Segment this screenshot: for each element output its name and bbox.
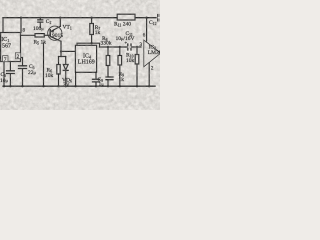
capacitor C6 bottom lead [9, 74, 11, 86]
wire VD6 bottom lead [65, 71, 67, 86]
wire W2 signal row [100, 46, 142, 48]
op-amp U3 LM386 triangle [144, 40, 161, 67]
capacitor C5 bottom lead [22, 69, 24, 86]
wire R8 to C10 [107, 66, 109, 77]
wire left rail stub down to IC1 [2, 18, 4, 33]
node R7 bottom junction [90, 42, 92, 44]
wire VT1 emitter to rail [59, 18, 61, 27]
node R6 ground [57, 85, 59, 87]
wire branch tee to R6 and VD6 [59, 56, 66, 58]
wire op-amp pin2 to ground [148, 63, 150, 86]
wire R9 bottom lead [119, 65, 121, 86]
wire IC4 bottom-left pin to ground [75, 72, 77, 86]
node VT1 collector junction [60, 50, 62, 52]
transistor VT1 9015 circle [48, 26, 62, 40]
node R9 ground [119, 85, 121, 87]
capacitor C12 at rail right end [158, 15, 161, 21]
transistor VT1 collector diagonal [50, 36, 61, 41]
wire C2 ground drop [43, 43, 45, 86]
wire C11 gap mask [128, 46, 130, 48]
wire R5 to VT1 base [44, 34, 50, 36]
wire IC4 top pin to W1 [77, 43, 100, 47]
capacitor C5 22u plates [19, 66, 27, 69]
label pin 7 notch [3, 56, 8, 62]
wire pin 8 of U1 to rail [20, 18, 22, 33]
wire top power rail [3, 17, 156, 19]
capacitor C2 top lead [39, 18, 41, 20]
node R8 top [107, 46, 109, 48]
wire R9 top lead [119, 47, 121, 56]
transistor VT1 emitter diagonal with arrow [51, 26, 61, 31]
node IC4 pin ground [74, 85, 76, 87]
node C2 rail junction [39, 17, 41, 19]
wire R8C column top lead [107, 47, 109, 56]
capacitor C6 10u plates [7, 71, 15, 74]
node R9 top [119, 46, 121, 48]
node C5 ground [21, 85, 23, 87]
IC U1 left box (567 tone decoder) [1, 33, 21, 62]
resistor R9 1k [118, 56, 122, 66]
wire U1 C6 pin lead [9, 62, 11, 71]
wire bottom ground rail [3, 85, 155, 87]
wire U1 pin2 to C5 [21, 58, 23, 66]
wire VD6 top lead [65, 57, 67, 65]
resistor R5 1k [35, 34, 44, 37]
resistor R10 10k [135, 55, 139, 65]
wire R7 top lead [91, 18, 93, 24]
capacitor C2 plates [38, 20, 43, 22]
node C2 ground junction [42, 85, 44, 87]
capacitor C11 plus sign [125, 42, 127, 44]
capacitor C11 10u/16V plates [128, 44, 131, 50]
capacitor C10 bottom lead [107, 80, 109, 86]
wire R10 bottom lead [136, 64, 138, 86]
node R10 ground [136, 85, 138, 87]
wire op-amp pin6 from rail [146, 18, 148, 41]
node C6 ground [9, 85, 11, 87]
wire R10 top lead [136, 47, 138, 55]
resistor R8 330k [106, 56, 110, 66]
capacitor C10 plates [106, 77, 113, 80]
resistor R6 10k [57, 65, 60, 75]
diode VD6 zener 3V [63, 65, 68, 71]
capacitor C2 bottom stub [39, 23, 41, 28]
capacitor C9 bottom lead [95, 82, 97, 86]
node VT1 rail junction [59, 17, 61, 19]
node R10 top [136, 46, 138, 48]
wire U1 pin7 to ground [3, 62, 5, 87]
wire VT1 collector down [60, 41, 62, 51]
node R7 rail junction [90, 17, 92, 19]
node VD6 ground [65, 85, 67, 87]
node pin7 ground [3, 85, 5, 87]
node pin2 ground [148, 85, 150, 87]
wire R7 bottom lead [91, 35, 93, 44]
wire R6 top lead [58, 57, 60, 65]
resistor R11 240 on rail [117, 14, 135, 20]
wire R6 bottom lead [58, 74, 60, 86]
IC U2 middle box LH169 [75, 45, 96, 72]
node pin6 rail junction [145, 17, 147, 19]
wire collector node to IC4 [61, 50, 75, 52]
wire collector node down branch [60, 51, 62, 56]
transistor VT1 base bar [49, 30, 51, 37]
capacitor C9 1u plates [93, 79, 100, 82]
label pin 2 notch [15, 53, 20, 59]
wire U1 pin to R5 [21, 34, 36, 36]
node C10 ground [107, 85, 109, 87]
resistor R7 1k [90, 24, 94, 35]
node pin8 rail junction [20, 17, 22, 19]
wire IC4 bottom-right pin [95, 72, 97, 79]
node C9 ground [95, 85, 97, 87]
